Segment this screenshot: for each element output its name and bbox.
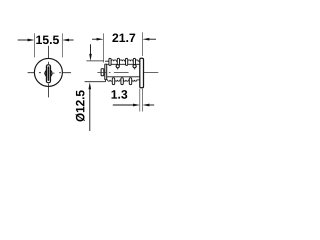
keyway cover <box>46 65 50 83</box>
top spring tab 3 <box>126 58 128 65</box>
dim 21.7 extension line left <box>102 33 104 62</box>
dim 1.3 extension line left <box>139 89 141 112</box>
bottom spring tab 2 <box>121 78 123 85</box>
dim 1.3 left arrow leader <box>113 104 134 106</box>
top spring tab 2 <box>117 58 119 65</box>
dia 12.5 label <box>76 90 85 121</box>
dia 12.5 bottom extension line <box>85 81 106 83</box>
dim 15.5 left arrow <box>18 39 29 41</box>
dim 21.7 label <box>112 33 135 42</box>
top spring strip wave <box>105 60 140 61</box>
dim 15.5 extension line right <box>61 33 63 57</box>
front view circle <box>34 58 62 86</box>
top spring tab 4 <box>133 58 135 65</box>
side axis centerline <box>97 71 158 73</box>
vertical centerline <box>47 46 49 98</box>
dim 21.7 extension line right <box>142 32 144 56</box>
cam plate <box>140 58 144 88</box>
dim 1.3 right arrow <box>148 104 154 106</box>
top spring tab 1 <box>109 58 111 65</box>
dim 21.7 right arrow <box>148 38 156 40</box>
dim 1.3 extension line right <box>142 89 144 112</box>
bottom spring strip wave <box>106 80 140 82</box>
pin hole 2 <box>133 65 136 68</box>
dia 12.5 top extension line <box>86 60 104 62</box>
plug circle <box>45 70 52 77</box>
dia 12.5 bottom arrow <box>89 82 92 89</box>
bottom spring tab 3 <box>129 78 131 85</box>
horizontal centerline <box>28 72 71 74</box>
bottom spring tab 1 <box>112 78 114 85</box>
dim 1.3 label <box>112 90 128 99</box>
pin hole 1 <box>116 65 119 68</box>
dim 15.5 right arrow <box>68 39 74 41</box>
dim 15.5 label <box>36 36 59 45</box>
dia 12.5 top arrow <box>90 44 92 55</box>
flange <box>105 64 107 80</box>
side view body outline <box>107 64 140 77</box>
dim 21.7 left arrow <box>92 38 98 40</box>
keyway slot <box>48 66 50 81</box>
dim 15.5 extension line left <box>33 33 35 57</box>
front cap <box>101 69 104 76</box>
